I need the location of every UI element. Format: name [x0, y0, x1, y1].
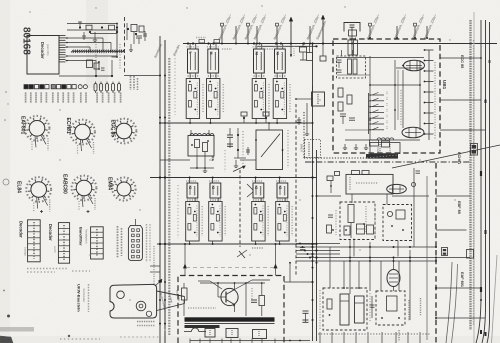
wire decoder harness bottom — [59, 75, 112, 77]
UB1 internal wires — [337, 57, 424, 59]
loop diagonal contact — [261, 134, 280, 157]
parts list text column right — [469, 20, 471, 330]
UB1 tuning switch ladder — [368, 93, 370, 134]
registration dot — [7, 315, 10, 318]
power dashed box 2 — [376, 291, 405, 325]
wire top-left pair — [67, 23, 117, 25]
bottom wires from amp — [189, 339, 191, 343]
bottom stub dots — [289, 340, 291, 342]
left edge specks — [5, 91, 7, 93]
IF stage body — [207, 79, 220, 119]
tone loop box — [346, 174, 393, 194]
component cluster top-center-left — [131, 25, 137, 32]
ground below FA2 — [306, 131, 308, 134]
IF transformer KI — [210, 183, 221, 198]
wire body drop — [276, 73, 278, 79]
connector strip — [128, 225, 142, 260]
amp box inner smudges — [188, 307, 216, 309]
left rail lower branch — [150, 265, 160, 267]
note Netzgleichrichter column — [117, 226, 119, 258]
terminal box on fold line — [471, 144, 478, 156]
potentiometer arrow — [233, 166, 245, 172]
decoder lower cluster — [87, 60, 93, 68]
bottom strip faint marks left — [60, 338, 100, 340]
wire bundle fan — [296, 243, 340, 245]
UB1 inner dashed screen — [337, 56, 366, 78]
wire FA2 drop — [306, 103, 308, 131]
page curl line B — [452, 264, 458, 343]
UKW hole small — [146, 311, 151, 316]
FA block outline — [188, 136, 214, 157]
wire center vertical rail B — [316, 150, 318, 341]
terminal rect on dashed rail — [442, 248, 448, 256]
wire bus y247 ext — [340, 246, 436, 248]
power box1 left parts — [327, 299, 332, 309]
pickup bracket terminal — [344, 23, 360, 32]
terminal stub x310 — [306, 13, 321, 44]
wire y196 run — [317, 195, 342, 197]
cap in amp — [251, 299, 257, 301]
wire center vertical rail A — [312, 44, 314, 342]
chassis hatch bar — [366, 154, 398, 159]
cap ground left x299 — [298, 117, 300, 125]
IF transformer M — [208, 49, 219, 73]
bottom edge stubs right half — [319, 332, 321, 343]
terminal stub x277 — [273, 13, 288, 44]
audio dashed box right — [383, 205, 412, 241]
coupling transformer rects — [357, 224, 365, 234]
junction cluster left of loop — [237, 134, 239, 136]
scan noise overlay — [0, 0, 1, 1]
bottom-left scan streak — [0, 327, 34, 332]
wire row B bottom line — [157, 243, 317, 245]
module box UB1 — [333, 39, 440, 153]
wire can feed row B — [255, 178, 257, 184]
wire can feed row B — [212, 178, 214, 184]
coupling parts under row A — [241, 112, 247, 116]
resistor small on wire — [109, 25, 115, 30]
IF transformer KI — [254, 49, 265, 73]
arm arrow — [158, 279, 162, 283]
antenna arrow — [290, 19, 292, 44]
table Decoder 2 — [58, 223, 69, 264]
wires between amp box and center rail — [284, 281, 313, 283]
bottom bus line — [190, 340, 310, 342]
tube socket ECC 85 — [110, 119, 137, 144]
IF transformer KI — [253, 183, 264, 198]
IF transformer KI — [187, 183, 198, 198]
output component 50 ohm 2 — [226, 329, 238, 338]
value smudges row A — [202, 84, 204, 112]
wire bus y261 ext — [340, 260, 436, 262]
dashed line x296 — [295, 104, 297, 275]
FA2 block mid — [312, 92, 325, 106]
wires lower right verticals — [349, 240, 351, 294]
wire FA to rail — [160, 159, 190, 161]
wire right rail 2 — [482, 20, 486, 343]
cluster ground mid — [94, 32, 96, 40]
IF stage body — [209, 202, 222, 242]
diagonal feeds to dashed rail — [247, 184, 253, 190]
wire y75.5 extension — [124, 75, 160, 77]
UB1 input coil pair — [348, 40, 352, 55]
terminal stub x415 — [411, 13, 426, 40]
output tube EL84 envelope — [387, 270, 400, 287]
UKW pointer arm — [157, 291, 185, 297]
dots on dashed rail — [435, 246, 437, 248]
dotted line to chassis bar — [304, 157, 366, 159]
junction marks on center rails — [312, 122, 314, 124]
left edge audio parts — [328, 214, 333, 216]
terminal stub x222 — [218, 13, 233, 44]
electrolytic can 2 — [355, 296, 365, 323]
IF transformer KI — [275, 49, 286, 73]
transistor symbol — [221, 288, 238, 305]
rail dot — [480, 299, 482, 301]
IF stage body — [252, 79, 265, 119]
small parts left of tone box — [327, 176, 333, 181]
decoder fan cluster smudges — [95, 44, 97, 72]
wire body drop — [189, 73, 191, 79]
audio section smudges — [335, 210, 337, 235]
FA20 block under UB1 — [370, 140, 379, 146]
FA ground — [204, 168, 206, 171]
value smudges near bus — [196, 37, 206, 39]
multiwire cable zigzag — [71, 50, 124, 52]
IF stage body — [276, 202, 289, 242]
UB1 transformer bumps — [377, 138, 394, 140]
decoder pin comb — [59, 35, 66, 37]
FA resistor 1 — [195, 140, 200, 148]
bottom-left corner blob — [0, 336, 13, 343]
output component 50 ohm 1 — [205, 329, 215, 338]
terminal stub x236 — [232, 13, 247, 44]
decoder amplifier dashed box — [178, 276, 284, 343]
page curl line A — [446, 262, 452, 343]
rectifier marks — [371, 296, 373, 318]
small caps row y150 — [247, 147, 249, 155]
tube socket EAF801 — [20, 116, 50, 151]
dashed line x240 — [239, 170, 241, 247]
dial lamp arrow — [322, 17, 324, 44]
right rail dash markers — [480, 171, 482, 176]
UB1 horizontal y68 — [396, 67, 424, 69]
table Bandfilter — [91, 227, 104, 259]
IF stage body — [186, 202, 199, 242]
UB1 left components — [338, 88, 343, 97]
legend fuse ovals — [94, 84, 97, 92]
stub mini components on bus — [199, 40, 205, 43]
cap ground right of FA — [235, 160, 237, 166]
terminal stub x427 — [423, 13, 438, 40]
vertical wire x117 — [116, 23, 118, 57]
tube socket ECH81 — [65, 118, 95, 156]
table Decoder voltages — [28, 220, 41, 262]
wire row B top line — [150, 177, 317, 179]
triode EABC80 envelope — [387, 184, 407, 193]
UKW grommet — [136, 301, 146, 311]
UB1 triode bottom — [402, 127, 424, 138]
input rect left — [182, 288, 188, 300]
faint guideline above box — [186, 267, 277, 269]
UB1 ground stubs — [344, 144, 346, 148]
speaker bar 2 — [185, 325, 220, 328]
diagonal pointer wire — [392, 145, 500, 168]
bundle entry caps — [300, 247, 305, 249]
switch loop rectangle — [256, 130, 283, 170]
tube socket EABC80 — [62, 174, 97, 211]
wire can feed — [255, 44, 257, 50]
under-bar line — [185, 323, 275, 325]
legend symbol squares — [24, 85, 28, 89]
wire right rail 1 — [476, 20, 481, 343]
UKW chassis notch arc — [110, 302, 114, 312]
value smudges row B — [201, 206, 203, 236]
voltage label column along left rails — [168, 58, 170, 336]
wires right section horizontals — [436, 195, 470, 197]
cap pair near center rail — [227, 134, 233, 136]
capacitor marks cluster — [136, 35, 142, 37]
legend notes column — [130, 76, 132, 90]
wire can feed — [276, 44, 278, 50]
junction marks on left rails — [159, 75, 161, 77]
scan shading band — [86, 0, 108, 88]
label smudges near lower right tubes — [408, 300, 410, 321]
dashed can skirt — [254, 75, 265, 77]
ratio detector FA coil B — [203, 134, 214, 136]
wire top supply bus — [183, 43, 497, 45]
transistor wires — [218, 296, 226, 298]
wire loop to FA2 — [296, 98, 312, 100]
dashed can skirt — [275, 75, 286, 77]
tube socket EL84 — [16, 177, 52, 212]
UB1 vertical x403 — [402, 70, 404, 128]
IF stage body — [273, 79, 286, 119]
narrow-band filter dotted box — [305, 140, 321, 158]
UKW hole 1 — [117, 291, 125, 299]
plus marks — [40, 211, 43, 213]
wire y123 left extension — [160, 122, 187, 124]
FA wires — [196, 148, 198, 157]
wire box top feeds — [184, 244, 186, 276]
FA resistor 2 — [203, 143, 208, 152]
transistor fan wires — [235, 280, 253, 290]
caps inside UB1 left edge — [337, 59, 342, 61]
coupler rect under bracket — [349, 30, 357, 36]
audio dashed box left — [340, 202, 375, 240]
misc mid smudges — [242, 131, 244, 165]
wires feeding audio boxes — [351, 194, 353, 204]
wire can feed — [189, 44, 191, 50]
stub below dial arrow — [322, 44, 324, 57]
rail dots y117 — [159, 117, 161, 119]
terminal stub x248 — [244, 13, 259, 44]
UB1 screened coil 2 — [353, 59, 357, 74]
wire bus y257.5 ext — [340, 257, 470, 259]
wire right rail 3 — [487, 22, 490, 343]
UKW annotation columns — [88, 284, 90, 312]
scan speckles — [29, 11, 30, 12]
terminal stub x370 — [366, 13, 381, 40]
wire left vertical rail A — [159, 36, 161, 343]
UB1 triode top — [404, 60, 425, 71]
decoder module box — [27, 36, 59, 75]
IF stage body — [186, 79, 199, 119]
wire can feed row B — [279, 178, 281, 184]
IF stage body — [252, 202, 265, 242]
wire body drop — [255, 73, 257, 79]
audio vertical x414 — [413, 168, 415, 247]
terminal stub x397 — [393, 13, 408, 40]
decoder pin fan wires — [66, 37, 104, 39]
output component 50 ohm 3 — [253, 330, 267, 339]
resistors on loop top edge — [352, 171, 360, 175]
bias resistor — [259, 296, 265, 306]
power dashed box 1 — [323, 288, 367, 330]
UB1 output block — [370, 143, 400, 154]
wires UB1 to right rails — [440, 57, 481, 59]
cluster caps left — [79, 22, 81, 28]
cluster resistor small2 — [86, 25, 92, 30]
notes rows below tables — [27, 268, 68, 270]
tube socket EM84 — [107, 177, 136, 201]
cap pair lower center — [303, 310, 309, 312]
dashed service line — [124, 17, 126, 73]
IF transformer L — [188, 49, 199, 73]
trap components hanging from bus — [300, 47, 307, 52]
dashed can skirt — [188, 75, 199, 77]
wire right rail curl — [492, 255, 498, 343]
wire second bus segment — [257, 45, 317, 47]
junction dots on harness — [95, 75, 97, 77]
wire body drop — [209, 73, 211, 79]
fold line right (light) — [473, 12, 475, 343]
UB1 extra internal wiring — [394, 60, 396, 130]
dash-dot chassis line — [305, 161, 470, 163]
arch contact — [192, 328, 199, 332]
ground stub — [130, 44, 132, 50]
wire y199 run — [392, 195, 429, 197]
dotted line x304 — [303, 112, 305, 158]
wire row A under-line — [160, 122, 313, 124]
ratio detector FA coil A — [190, 134, 201, 136]
terminal stub x257 — [253, 13, 268, 44]
speaker bar (thick) — [185, 317, 275, 321]
electrolytic can 1 — [340, 294, 349, 325]
wire left vertical rail B — [164, 40, 166, 343]
legend caption text rows — [25, 93, 27, 104]
UB1 terminal strip — [428, 50, 430, 140]
dashed can skirt — [208, 75, 219, 77]
light vertical x427 — [426, 176, 428, 340]
print mark circle far left — [3, 179, 9, 185]
UKW-Baustein outline — [110, 284, 157, 318]
wire can feed row B — [189, 178, 191, 184]
cap at x417 top — [416, 170, 421, 172]
wire can feed — [209, 44, 211, 50]
trimmer cap near row B end — [239, 251, 245, 258]
dashed module rail right — [435, 163, 437, 343]
right rail terminal rect — [467, 250, 474, 259]
wire loop top to bus — [268, 123, 270, 130]
IF transformer KI — [277, 183, 288, 198]
UB1 screened coil 1 — [348, 59, 352, 74]
UKW under-notes — [137, 321, 155, 323]
legend circles — [78, 85, 82, 89]
